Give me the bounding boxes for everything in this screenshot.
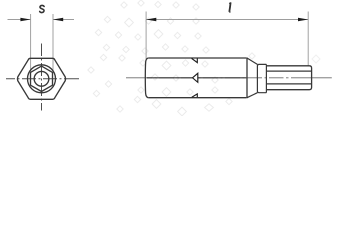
body bottom edge (148, 97, 246, 99)
body top edge (148, 57, 246, 59)
chevron top (192, 58, 198, 62)
arrow l right (298, 18, 308, 22)
tip outline (266, 66, 311, 90)
hexagon inner (tip, s across flats) (31, 66, 53, 91)
arrow s left (20, 18, 30, 22)
chevron bottom (192, 94, 198, 97)
collar (259, 64, 266, 92)
extension line right (s) (52, 14, 54, 73)
label l (229, 2, 230, 12)
body middle hex edge (147, 77, 193, 79)
centerline horizontal (end view) (6, 78, 79, 80)
arrow l left (146, 18, 156, 22)
centerline vertical (end view) (41, 44, 43, 111)
circle (neck) (28, 65, 56, 93)
tip hex edge lower (266, 83, 311, 85)
chevron middle (193, 73, 198, 82)
label s (40, 5, 44, 12)
arrow s right (53, 18, 63, 22)
extension line left (s) (30, 14, 32, 73)
body outline: left cap arc (145, 58, 148, 98)
tip hex edge upper (266, 70, 311, 72)
extension line left (l) (145, 12, 147, 60)
watermark diamonds (88, 0, 320, 116)
hexagon outer (end view) (17, 58, 65, 99)
centerline horizontal (side view) (126, 77, 332, 79)
extension line right (l) (307, 12, 309, 66)
dimension line l (146, 19, 308, 21)
small circle (chamfer) (34, 71, 49, 86)
taper bottom (247, 93, 257, 98)
body end line (246, 58, 248, 99)
dimension line s (8, 19, 31, 21)
taper top (247, 58, 257, 64)
